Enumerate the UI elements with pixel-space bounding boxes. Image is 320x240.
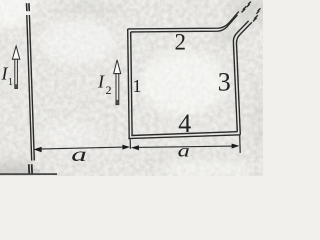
loop side 3 (right, double line) [233, 21, 252, 135]
wire W1 (long straight wire, double line) [27, 15, 35, 161]
paper background [0, 0, 263, 176]
svg-text:3: 3 [218, 67, 231, 96]
lead break marks (top side lead) [242, 2, 251, 13]
label I1 [1, 64, 14, 89]
dimension extension line below loop left [129, 139, 131, 149]
scan artifact bottom-left edge line [0, 169, 57, 175]
dimension extension line below loop right [239, 135, 242, 153]
wire W1 break mark bottom [29, 164, 32, 173]
svg-text:a: a [178, 141, 190, 161]
loop side 2 (top, double line) [128, 12, 239, 32]
current arrow I2 [114, 60, 121, 105]
svg-text:a: a [71, 143, 87, 165]
dimension arrow a (loop width) [131, 144, 239, 151]
current arrow I1 [12, 46, 19, 89]
svg-text:4: 4 [178, 109, 191, 138]
svg-text:2: 2 [175, 29, 187, 54]
wire W1 break mark top [27, 3, 30, 11]
loop side 1 (left, double line) [128, 29, 132, 139]
svg-text:1: 1 [133, 76, 142, 96]
label I2 [97, 72, 112, 98]
svg-text:I: I [97, 72, 105, 92]
dimension arrow a (wire to loop) [34, 145, 131, 153]
loop side 4 (bottom, double line) [128, 132, 240, 139]
svg-text:2: 2 [106, 83, 112, 97]
lead break marks (right side lead) [253, 8, 260, 21]
svg-text:1: 1 [8, 77, 13, 88]
